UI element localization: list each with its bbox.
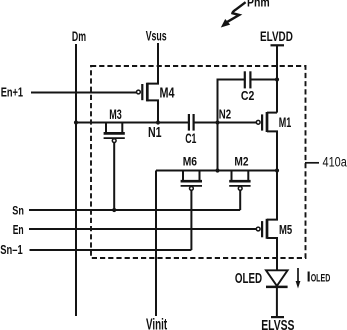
capacitor C2 — [245, 71, 251, 88]
svg-text:410a: 410a — [323, 155, 347, 170]
svg-text:M3: M3 — [109, 106, 122, 122]
arrowhead Pnm — [221, 19, 230, 28]
arrowhead IOLED — [296, 281, 301, 289]
svg-text:OLED: OLED — [311, 273, 331, 285]
wire Sn row — [29, 209, 240, 211]
wire En+1 row — [31, 92, 136, 94]
transistor M1 — [256, 112, 277, 171]
power ELVSS terminal bar — [271, 316, 284, 318]
transistor M4 — [137, 43, 159, 123]
svg-text:Pnm: Pnm — [247, 0, 270, 10]
node Vinit vertical line — [155, 171, 157, 317]
junction dot M3 gate/Sn — [112, 208, 116, 212]
wire En row — [29, 228, 256, 230]
svg-text:Sn–1: Sn–1 — [0, 243, 22, 257]
tick to label 410a — [305, 162, 319, 164]
svg-text:C1: C1 — [185, 131, 197, 146]
svg-text:ELVDD: ELVDD — [260, 29, 293, 44]
pointer Pnm squiggle arrow — [227, 2, 246, 22]
svg-text:Vsus: Vsus — [146, 29, 167, 44]
capacitor C1 — [189, 114, 194, 131]
junction dot N2/rail — [215, 168, 219, 172]
transistor M6 — [181, 171, 202, 251]
node N2 dot — [215, 120, 219, 124]
svg-text:ELVSS: ELVSS — [261, 318, 295, 330]
transistor M5 — [256, 171, 277, 271]
svg-text:N1: N1 — [148, 125, 162, 141]
junction dot M1/M5 rail — [275, 168, 279, 172]
node Dm vertical data line — [75, 44, 77, 316]
wire M6/M2 top rail — [156, 170, 277, 172]
wire C2 left — [218, 80, 245, 171]
dashed pixel-circuit boundary box 410a — [91, 66, 306, 258]
junction dot C2/ELVDD — [275, 77, 279, 81]
power ELVDD terminal bar — [271, 44, 285, 46]
svg-text:Dm: Dm — [72, 29, 86, 44]
svg-text:N2: N2 — [219, 106, 231, 121]
svg-text:C2: C2 — [241, 88, 254, 103]
svg-text:M6: M6 — [183, 154, 198, 168]
wire N1 row right to M1 gate — [194, 122, 256, 124]
wire C2 right — [251, 79, 277, 81]
svg-text:M5: M5 — [279, 222, 292, 237]
wire N1 row left — [76, 122, 188, 124]
svg-text:En: En — [13, 223, 24, 237]
svg-text:OLED: OLED — [235, 271, 262, 287]
wire ELVDD vertical — [276, 45, 278, 112]
transistor M2 — [229, 171, 250, 211]
node N1 dot — [156, 120, 160, 124]
svg-text:M1: M1 — [279, 114, 292, 130]
arrow IOLED current — [297, 268, 299, 283]
svg-text:M4: M4 — [160, 85, 175, 101]
svg-text:En+1: En+1 — [1, 86, 23, 100]
svg-text:Sn: Sn — [12, 203, 24, 217]
svg-text:Vinit: Vinit — [146, 316, 167, 330]
wire Sn-1 row — [30, 249, 192, 251]
transistor M3 — [104, 123, 125, 211]
diode OLED — [266, 270, 288, 317]
node Vsus supply line — [157, 43, 159, 84]
svg-text:M2: M2 — [234, 154, 248, 168]
junction dot Dm/N1-row — [74, 120, 78, 124]
